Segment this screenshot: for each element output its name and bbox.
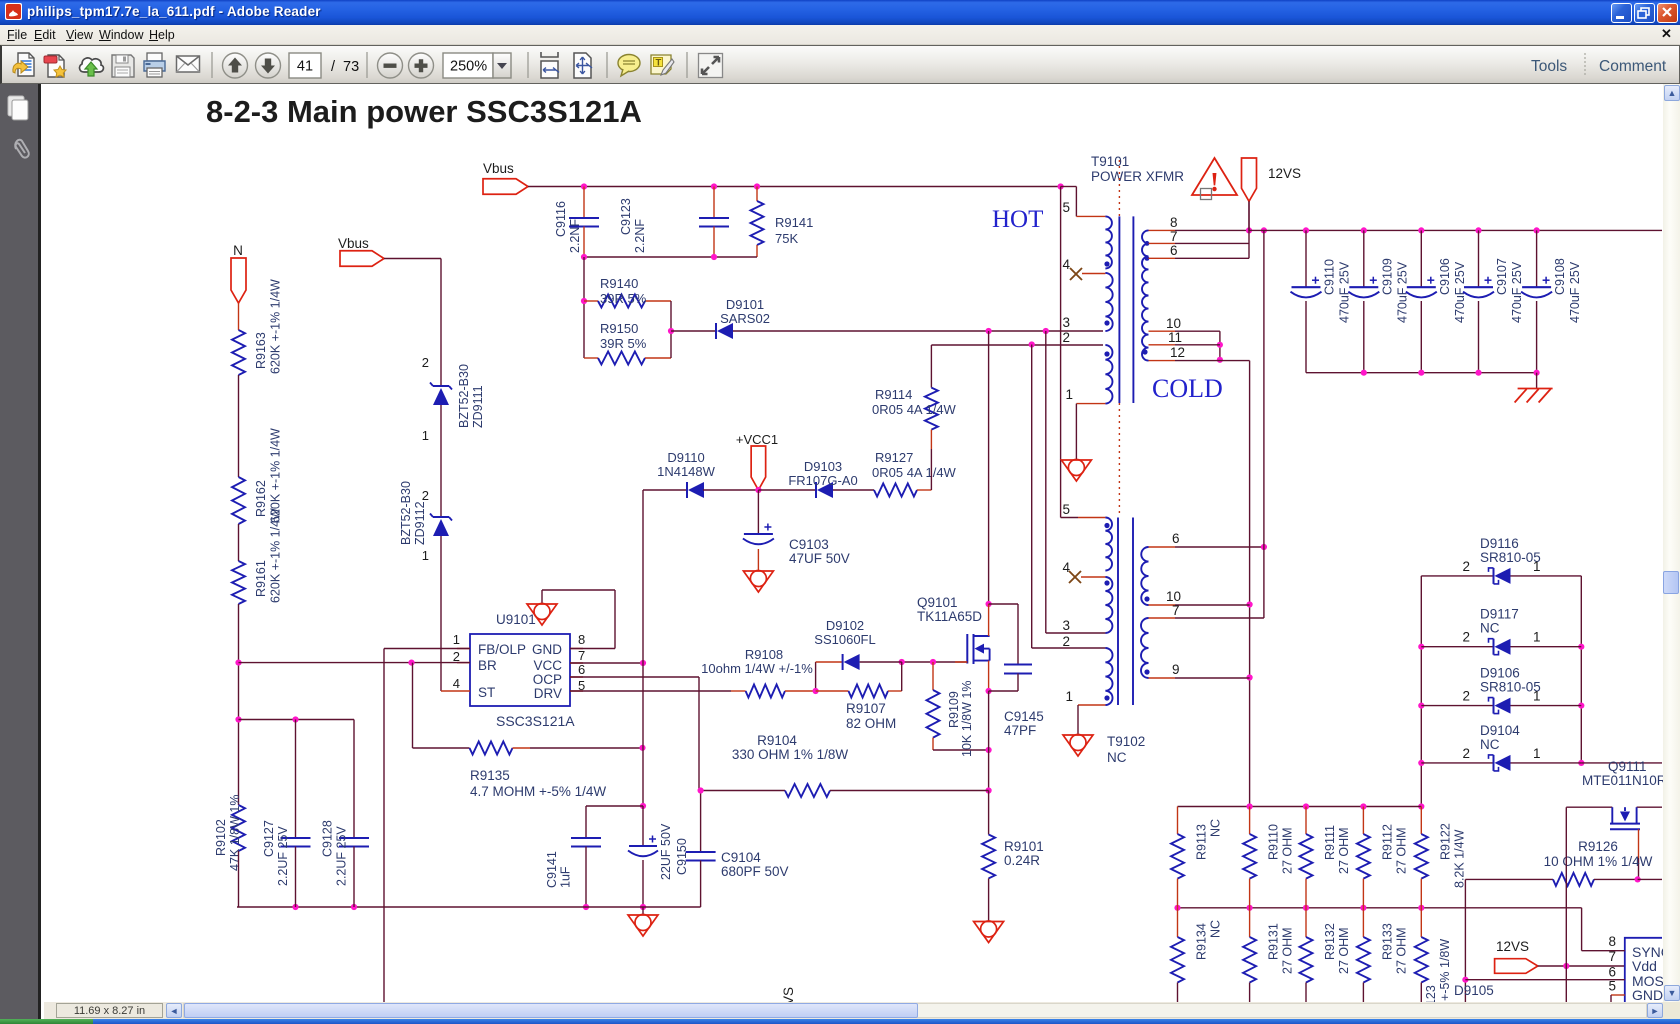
svg-text:Vbus: Vbus [338,236,369,251]
svg-text:1: 1 [453,632,460,647]
wire IC pin5 [1611,994,1625,996]
wire [670,301,672,358]
wire [583,257,585,358]
connector 12VS (bottom) [1495,959,1538,974]
resistor bank mid rail [1178,907,1582,909]
svg-text:250%: 250% [450,59,487,75]
T9101 core [1118,216,1120,403]
capacitor C9108 [1536,230,1538,286]
svg-text:BZT52-B30: BZT52-B30 [457,364,471,428]
connector Vbus (upper) [483,179,528,195]
wire gate net [902,661,968,663]
capacitor C9109 [1363,230,1365,286]
connector N [231,258,246,303]
wire GND pin8 [570,648,615,650]
ground R9101 [974,922,1004,943]
svg-text:1: 1 [1533,689,1541,704]
svg-text:D9103: D9103 [804,459,842,474]
svg-text:+VCC1: +VCC1 [736,432,778,447]
diode D9110 [643,489,687,491]
svg-text:5: 5 [1608,979,1616,994]
svg-text:1: 1 [1533,746,1541,761]
svg-text:47UF 50V: 47UF 50V [789,551,850,566]
diode bank verticals [1420,576,1422,807]
svg-text:SR810-05: SR810-05 [1480,680,1541,695]
svg-text:BR: BR [478,658,497,673]
resistor R9111 [1305,807,1307,835]
svg-text:T9102: T9102 [1107,734,1145,749]
resistor R9162 [232,477,245,524]
svg-text:ZD9112: ZD9112 [413,501,427,545]
svg-text:620K +-1% 1/4W: 620K +-1% 1/4W [269,279,283,374]
wire Vbus rail [528,186,1061,188]
capacitor C9103 [757,490,759,533]
diode D9116 [1421,575,1493,577]
svg-text:R9150: R9150 [600,321,638,336]
resistor bank top rail [1178,806,1422,808]
resistor R9134 [1177,908,1179,937]
resistor R9126 [1465,878,1553,880]
svg-text:R9127: R9127 [875,450,913,465]
svg-text:6: 6 [1608,965,1616,980]
svg-text:FR107G-A0: FR107G-A0 [788,473,857,488]
svg-text:10K 1/8W 1%: 10K 1/8W 1% [960,681,974,757]
connector 12VS (top) [1242,158,1257,201]
svg-text:75K: 75K [775,231,798,246]
svg-text:620K +-1% 1/4W: 620K +-1% 1/4W [269,508,283,603]
wire pin1 feedback drop [383,649,385,1003]
svg-text:R9123: R9123 [1424,985,1438,1002]
wire ST pin4 [441,690,470,692]
svg-text:5: 5 [1062,502,1070,517]
wire pin7 [1149,242,1176,244]
svg-text:2.2UF 25V: 2.2UF 25V [335,826,349,886]
svg-text:ZD9111: ZD9111 [471,385,485,428]
svg-text:7: 7 [578,648,585,663]
resistor R9161 [232,561,245,604]
svg-text:27 OHM: 27 OHM [1394,827,1408,874]
svg-text:680PF 50V: 680PF 50V [721,864,789,879]
svg-text:R9122: R9122 [1438,823,1452,860]
svg-text:D9116: D9116 [1480,536,1519,551]
resistor R9101 [988,791,990,835]
capacitor C9141 [586,805,643,807]
resistor R9114 [930,345,932,388]
svg-text:R9109: R9109 [947,691,961,728]
svg-text:22UF 50V: 22UF 50V [659,823,673,880]
svg-text:R9113: R9113 [1195,824,1209,860]
svg-text:R9101: R9101 [1004,839,1044,854]
wire [238,524,240,561]
diode D9106 [1421,705,1493,707]
svg-text:C9109: C9109 [1380,258,1394,295]
svg-text:9: 9 [1172,662,1180,677]
svg-text:N: N [233,243,243,258]
svg-text:D9101: D9101 [726,297,764,312]
svg-text:VCC: VCC [533,658,562,673]
ground U9101 [527,604,557,625]
resistor R9104 [699,790,785,792]
wire pin7 [1149,617,1176,619]
diode D9117 [1421,646,1493,648]
svg-text:0R05 4A 1/4W: 0R05 4A 1/4W [872,402,957,417]
svg-text:SSC3S121A: SSC3S121A [496,713,575,729]
svg-text:FB/OLP: FB/OLP [478,642,526,657]
wire pin12 [1149,360,1176,362]
svg-text:82 OHM: 82 OHM [846,716,896,731]
svg-text:2: 2 [453,649,460,664]
capacitor C9128 [353,720,355,839]
diode D9102 [815,662,817,691]
svg-text:6: 6 [578,662,585,677]
resistor R9109 [932,662,934,690]
svg-text:R9126: R9126 [1578,839,1618,854]
resistor R9110 [1249,807,1251,835]
wire OCP pin6 [570,676,699,678]
svg-text:D9104: D9104 [1480,723,1520,738]
svg-text:D9106: D9106 [1480,666,1520,681]
wire pin6 [1149,546,1176,548]
IC box bottom right [1625,938,1662,1002]
svg-text:POWER XFMR: POWER XFMR [1091,169,1184,184]
diode D9103 [758,489,816,491]
wire D9104 node to Q9111 [1581,762,1662,764]
svg-text:D9102: D9102 [826,618,864,633]
svg-text:0R05 4A 1/4W: 0R05 4A 1/4W [872,465,957,480]
svg-text:T9101: T9101 [1091,154,1129,169]
svg-text:8.2K 1/4W: 8.2K 1/4W [1452,829,1466,888]
svg-text:+-5% 1/8W: +-5% 1/8W [1438,939,1452,1001]
svg-text:2: 2 [422,355,429,370]
wire source column [988,691,990,791]
svg-text:C9103: C9103 [789,537,829,552]
svg-text:1N4148W: 1N4148W [657,464,716,479]
svg-text:Q9111: Q9111 [1608,759,1647,774]
resistor R9108 [731,690,746,692]
svg-text:NC: NC [1209,819,1223,837]
svg-text:R9131: R9131 [1267,923,1281,960]
svg-text:8: 8 [1608,934,1616,949]
svg-text:12VS: 12VS [1496,939,1529,954]
svg-text:C9108: C9108 [1553,258,1567,295]
svg-text:2: 2 [1462,689,1470,704]
svg-text:8: 8 [1170,215,1178,230]
wire Q9101 drain [988,331,990,604]
resistor R9113 [1177,807,1179,835]
capacitor C9106 [1420,230,1422,286]
isolation dashed line [1118,160,1120,216]
resistor R9135 [412,663,414,748]
svg-text:R9162: R9162 [254,480,268,517]
svg-text:11: 11 [1168,330,1182,345]
resistor R9131 [1249,908,1251,937]
wire caps bottom rail [1306,372,1537,374]
svg-text:R9111: R9111 [1323,825,1337,860]
svg-text:C9116: C9116 [554,201,568,237]
T9101 primary winding 4-3 [1105,273,1112,331]
svg-text:10: 10 [1166,589,1181,604]
svg-text:5: 5 [1062,200,1070,215]
svg-text:NC: NC [1480,621,1500,636]
svg-text:U9101: U9101 [496,612,536,627]
capacitor C9107 [1478,230,1480,286]
diode D9104 [1421,762,1493,764]
T9101 primary winding 2-1 [1105,345,1112,404]
ground T9102 pin1 [1063,735,1093,756]
svg-text:1: 1 [422,548,429,563]
svg-text:2: 2 [1062,330,1070,345]
svg-text:BZT52-B30: BZT52-B30 [399,481,413,545]
resistor R9163 [232,330,245,375]
svg-text:C9123: C9123 [619,198,633,235]
zener ZD9111 [433,385,449,387]
wire HOT left rail [1060,187,1062,518]
wire pin9 [1149,677,1176,679]
svg-text:R9107: R9107 [846,701,886,716]
wire [238,604,240,805]
connector Vbus (lower) [340,251,384,267]
svg-text:R9114: R9114 [875,387,912,402]
resistor R9123 [1420,908,1422,937]
wire pin10 [1149,330,1176,332]
svg-text:C9107: C9107 [1495,258,1509,295]
wire [384,258,441,260]
svg-text:8: 8 [578,632,585,647]
svg-text:1uF: 1uF [559,866,573,888]
svg-text:1: 1 [1533,630,1541,645]
wire [238,375,240,477]
svg-text:C9145: C9145 [1004,709,1044,724]
connector +VCC1 [703,489,758,491]
diode D9101 [671,330,716,332]
svg-text:4: 4 [453,676,460,691]
wire pin5 [1061,517,1078,519]
resistor R9107 [816,690,849,692]
svg-text:27 OHM: 27 OHM [1394,927,1408,974]
T9102 secondary 7-9 [1141,618,1148,678]
wire pin10 [1149,604,1176,606]
svg-text:47K 1/8W 1%: 47K 1/8W 1% [228,795,242,871]
svg-text:2: 2 [422,488,429,503]
resistor R9132 [1305,908,1307,937]
capacitor C9110 [1305,230,1307,286]
svg-text:OCP: OCP [533,672,562,687]
svg-text:47PF: 47PF [1004,723,1036,738]
svg-text:2: 2 [1462,630,1470,645]
svg-text:NC: NC [1107,750,1127,765]
svg-text:C9104: C9104 [721,850,761,865]
wire pin2 net [931,344,1103,346]
wire cap bottom rail [584,256,757,258]
capacitor C9104 [700,791,702,853]
svg-text:C9128: C9128 [321,820,335,857]
wire [238,851,240,907]
svg-text:C9106: C9106 [1438,258,1452,295]
wire [238,303,240,330]
svg-text:D9117: D9117 [1480,607,1519,622]
svg-text:Vbus: Vbus [483,161,514,176]
svg-text:2: 2 [1462,746,1470,761]
svg-text:1: 1 [1065,689,1073,704]
wire pin5 top [1061,186,1077,188]
wire IC pin8 [1581,908,1583,951]
svg-text:2.2NF: 2.2NF [568,219,582,253]
wire pin6 [1149,257,1176,259]
svg-text:12VS: 12VS [1268,166,1301,181]
wire pin11 [1149,344,1176,346]
resistor R9133 [1362,908,1364,937]
svg-text:SARS02: SARS02 [720,311,770,326]
svg-text:10 OHM 1% 1/4W: 10 OHM 1% 1/4W [1544,854,1653,869]
wire sec rail x1264 [1263,230,1265,618]
wire pin1 [1076,403,1105,405]
wire pin3 net [733,330,1103,332]
wire bottom rail [237,906,701,908]
wire VCC pin7 [570,662,643,664]
svg-text:27 OHM: 27 OHM [1337,827,1351,874]
svg-text:39R 5%: 39R 5% [600,291,647,306]
svg-text:12: 12 [1170,345,1185,360]
wire pin8 [1149,229,1176,231]
svg-text:SS1060FL: SS1060FL [814,632,875,647]
wire output rail [1249,229,1662,231]
wire [1248,201,1250,230]
svg-text:R9140: R9140 [600,276,638,291]
wire COLD rail [1249,361,1251,807]
svg-text:R9102: R9102 [214,819,228,856]
node BR rail [235,660,241,666]
ground C9150 [642,907,644,915]
svg-text:Comment: Comment [1599,58,1667,75]
svg-text:2: 2 [1062,634,1070,649]
T9101 secondary winding 8-12 [1142,230,1149,360]
wire DRV pin5 [570,690,731,692]
T9101 primary winding 5-4 [1105,216,1112,268]
svg-text:R9134: R9134 [1195,923,1209,960]
svg-text:39R 5%: 39R 5% [600,336,647,351]
svg-text:GND: GND [1632,987,1663,1002]
svg-text:10ohm 1/4W +/-1%: 10ohm 1/4W +/-1% [701,661,813,676]
wire pin stubs U9101 [570,648,583,650]
svg-text:R9135: R9135 [470,768,510,783]
op-amp U9101 box [470,634,570,706]
T9102 secondary 6-10 [1141,547,1148,605]
svg-text:41: 41 [297,59,313,75]
svg-text:330 OHM 1% 1/8W: 330 OHM 1% 1/8W [732,747,849,762]
svg-text:D9105: D9105 [1454,983,1494,998]
svg-text:TK11A65D: TK11A65D [917,609,982,624]
svg-text:27 OHM: 27 OHM [1281,927,1295,974]
svg-text:6: 6 [1172,531,1180,546]
svg-text:10: 10 [1166,316,1181,331]
svg-text:C9150: C9150 [675,838,689,875]
svg-text:1: 1 [422,428,429,443]
resistor R9127 [833,489,874,491]
ground output [1536,373,1538,389]
svg-text:D9110: D9110 [667,450,704,465]
svg-text:C9141: C9141 [545,851,559,888]
svg-text:GND: GND [532,642,562,657]
svg-text:Vdd: Vdd [1632,958,1657,974]
svg-text:COLD: COLD [1152,374,1223,403]
resistor R9112 [1362,807,1364,835]
ground C9103 [743,571,773,592]
wire pin3 [1045,331,1047,633]
svg-text:R9104: R9104 [757,733,797,748]
resistor R9150 [584,357,598,359]
node pin4 X [1069,571,1081,583]
wire R9126 left drop [1464,879,1466,1002]
svg-text:R9141: R9141 [775,215,813,230]
svg-text:4.7 MOHM +-5% 1/4W: 4.7 MOHM +-5% 1/4W [470,784,606,799]
resistor R9141 [756,187,758,202]
svg-text:73: 73 [343,59,359,75]
wire BR pin2 [239,662,471,664]
capacitor C9127 [239,719,355,721]
T9102 core [1117,518,1119,706]
capacitor C9116 [583,187,585,219]
wire FB/OLP pin1 [384,648,470,650]
svg-text:7: 7 [1170,229,1178,244]
svg-text:1: 1 [1533,559,1541,574]
wire pin1 [1078,704,1105,706]
svg-text:/: / [331,59,336,75]
svg-text:R9161: R9161 [254,560,268,597]
svg-text:27 OHM: 27 OHM [1337,927,1351,974]
wire IC pin6 line [1465,979,1624,981]
svg-text:HOT: HOT [992,206,1043,233]
zener ZD9112 [433,516,449,518]
svg-text:1: 1 [1065,387,1073,402]
node pin4 X [1070,268,1082,280]
svg-text:C9110: C9110 [1323,259,1337,295]
wire VCC1 rail x643 [642,490,644,806]
svg-text:2.2NF: 2.2NF [633,219,647,253]
resistor R9140 [584,300,598,302]
svg-text:2: 2 [1462,559,1470,574]
svg-text:7: 7 [1172,603,1180,618]
svg-text:Q9101: Q9101 [917,595,958,610]
svg-text:VS: VS [781,987,796,1002]
svg-text:T: T [656,58,662,69]
svg-text:MTE011N10R: MTE011N10R [1582,773,1663,788]
capacitor C9150 [642,806,644,845]
svg-text:3: 3 [1062,315,1070,330]
wire Q9101 source [988,661,990,691]
svg-text:4: 4 [1062,560,1070,575]
wire [1538,965,1625,967]
capacitor C9145 [989,603,1018,605]
svg-text:R9112: R9112 [1380,824,1394,860]
svg-text:DRV: DRV [534,686,562,701]
svg-text:Tools: Tools [1531,58,1567,75]
wire Q9111 gate column [1565,807,1567,1002]
svg-text:ST: ST [478,685,495,700]
svg-text:R9108: R9108 [745,647,783,662]
svg-text:NC: NC [1480,737,1500,752]
svg-text:2.2UF 25V: 2.2UF 25V [276,826,290,886]
svg-text:8-2-3 Main power SSC3S121A: 8-2-3 Main power SSC3S121A [206,94,642,129]
svg-text:C9127: C9127 [262,820,276,857]
warning symbol [1192,158,1237,195]
svg-text:SR810-05: SR810-05 [1480,550,1541,565]
svg-text:R9110: R9110 [1267,824,1281,860]
svg-text:4: 4 [1062,257,1070,272]
wire pin2 [1031,345,1033,649]
svg-text:R9132: R9132 [1323,923,1337,960]
resistor R9122 [1420,807,1422,835]
svg-text:470uF 25V: 470uF 25V [1568,261,1582,323]
